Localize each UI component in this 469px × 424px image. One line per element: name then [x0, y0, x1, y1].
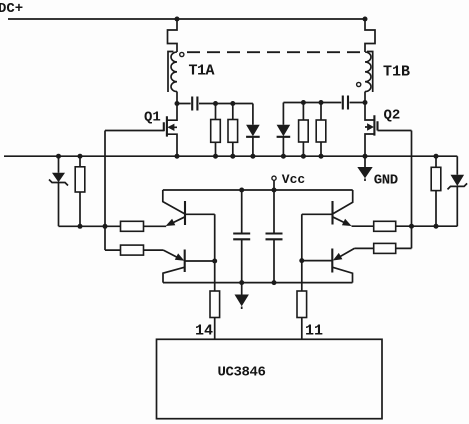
- svg-text:DC+: DC+: [0, 1, 23, 17]
- svg-text:11: 11: [305, 323, 323, 340]
- svg-text:UC3846: UC3846: [218, 365, 266, 381]
- svg-text:Q1: Q1: [144, 110, 161, 126]
- svg-text:Vcc: Vcc: [282, 172, 306, 187]
- svg-text:Q2: Q2: [384, 108, 401, 124]
- svg-text:14: 14: [195, 323, 213, 340]
- svg-text:T1B: T1B: [383, 64, 410, 81]
- svg-text:T1A: T1A: [189, 63, 215, 80]
- svg-text:GND: GND: [374, 172, 398, 188]
